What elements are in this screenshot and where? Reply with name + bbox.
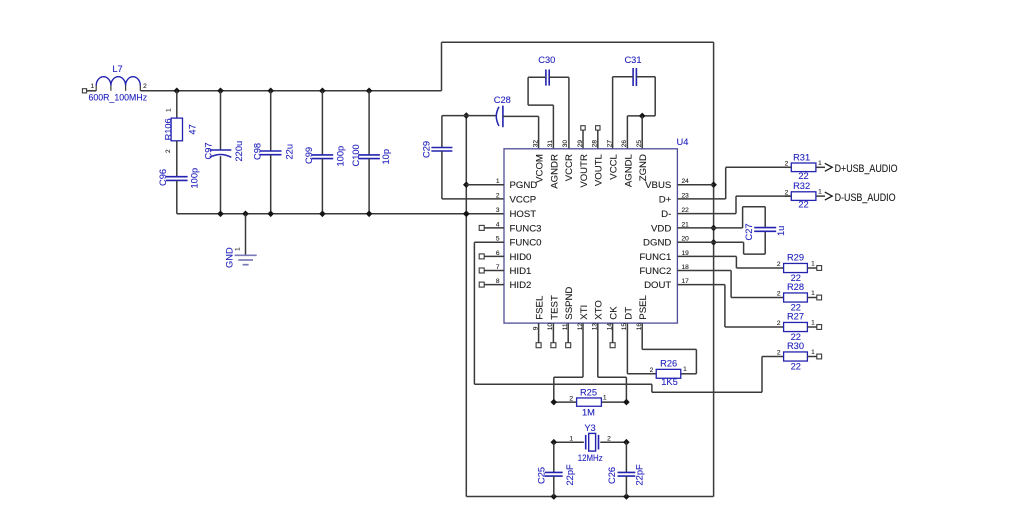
svg-text:FSEL: FSEL	[535, 295, 546, 320]
wire D+ route	[677, 198, 725, 200]
svg-text:1: 1	[569, 436, 573, 443]
svg-text:Y3: Y3	[584, 423, 595, 433]
svg-text:22: 22	[798, 171, 808, 181]
svg-text:C99: C99	[304, 147, 314, 164]
capacitor C31	[632, 68, 634, 86]
svg-text:U4: U4	[677, 137, 689, 147]
junction C100 bottom	[366, 211, 373, 218]
wire C26 column	[625, 442, 627, 472]
svg-text:1: 1	[603, 395, 607, 402]
svg-text:R28: R28	[787, 282, 804, 292]
svg-text:22: 22	[791, 362, 801, 372]
capacitor C100	[358, 154, 380, 156]
wire R29 pin1	[807, 267, 817, 269]
svg-text:FUNC0: FUNC0	[510, 238, 542, 249]
svg-text:1u: 1u	[776, 226, 786, 236]
capacitor C27	[754, 227, 776, 229]
svg-text:FUNC1: FUNC1	[639, 252, 671, 263]
wire ZGND stub	[641, 116, 643, 149]
svg-text:2: 2	[569, 395, 573, 402]
svg-text:C29: C29	[422, 141, 432, 158]
junction at R106 top	[174, 88, 181, 95]
wire C98 to ground rail	[270, 155, 272, 214]
wire PSEL route	[641, 323, 643, 349]
wire C100 to ground rail	[368, 159, 370, 214]
svg-text:C31: C31	[624, 55, 641, 65]
svg-text:DOUT: DOUT	[644, 280, 671, 291]
op-amp U4 body	[504, 149, 677, 323]
wire D- route	[677, 213, 736, 215]
svg-text:VCCR: VCCR	[564, 154, 575, 181]
svg-text:R25: R25	[580, 387, 597, 397]
svg-text:31: 31	[547, 140, 554, 148]
wire C28 to VCOM	[503, 115, 539, 117]
wire XTO route	[597, 323, 599, 377]
svg-text:XTO: XTO	[594, 300, 605, 320]
wire R28 pin1	[807, 297, 817, 299]
no-connect at HID0	[479, 254, 484, 259]
svg-text:30: 30	[562, 140, 569, 148]
svg-text:DGND: DGND	[643, 238, 671, 249]
svg-text:VOUTR: VOUTR	[579, 154, 590, 188]
svg-text:ZGND: ZGND	[638, 154, 649, 181]
svg-text:C27: C27	[744, 223, 754, 240]
svg-text:GND: GND	[225, 247, 235, 268]
svg-text:28: 28	[592, 140, 599, 148]
svg-text:1: 1	[90, 83, 94, 90]
no-connect at R28	[817, 295, 822, 300]
wire C29 to C28	[442, 115, 497, 117]
svg-text:HOST: HOST	[510, 209, 537, 220]
no-connect at VOUTL	[596, 126, 600, 130]
wire R31 to arrow	[816, 166, 825, 168]
svg-text:HID1: HID1	[510, 266, 532, 277]
wire VBUS pin	[677, 184, 713, 186]
wire FUNC1 route	[677, 255, 736, 257]
svg-text:VOUTL: VOUTL	[594, 153, 605, 186]
junction DGND pin	[710, 239, 717, 246]
wire R25 left	[554, 401, 577, 403]
resistor R25	[577, 398, 602, 406]
capacitor C29	[431, 147, 452, 149]
junction at C99 top	[319, 88, 326, 95]
wire VBUS top run	[442, 41, 714, 43]
svg-text:2: 2	[777, 261, 781, 268]
capacitor C30	[545, 70, 547, 86]
junction C26 at ground run	[623, 493, 630, 500]
svg-text:C26: C26	[607, 467, 617, 484]
wire C30 left to AGNDR	[528, 76, 546, 78]
svg-text:CK: CK	[609, 306, 620, 320]
svg-text:AGNDL: AGNDL	[623, 153, 634, 187]
svg-text:C25: C25	[536, 467, 546, 484]
junction C99 bottom	[319, 211, 326, 218]
junction PGND	[463, 181, 470, 188]
wire DOUT route	[677, 284, 725, 286]
svg-text:C100: C100	[351, 144, 361, 166]
svg-text:3: 3	[496, 207, 500, 214]
no-connect at VOUTR	[581, 126, 585, 130]
capacitor C28 (polarized)	[496, 107, 499, 126]
wire R27 pin1	[807, 326, 817, 328]
svg-text:TEST: TEST	[549, 295, 560, 320]
svg-text:FUNC3: FUNC3	[510, 223, 542, 234]
junction GND stem	[242, 211, 249, 218]
svg-text:1M: 1M	[582, 407, 595, 417]
svg-text:XTI: XTI	[579, 305, 590, 320]
svg-text:2: 2	[777, 291, 781, 298]
resistor R28	[784, 293, 808, 302]
svg-text:D+: D+	[659, 194, 672, 205]
svg-text:VDD: VDD	[651, 223, 671, 234]
wire DT route	[626, 323, 628, 374]
svg-text:R32: R32	[793, 181, 810, 191]
wire C31 left to VCCL	[613, 76, 634, 78]
wire FUNC2 route	[677, 270, 731, 272]
svg-text:C98: C98	[253, 143, 263, 160]
svg-text:47: 47	[187, 124, 197, 134]
wire C97 to ground rail	[220, 156, 222, 214]
svg-text:22pF: 22pF	[565, 464, 575, 486]
wire C25 column	[553, 442, 555, 472]
wire R30 pin1	[807, 356, 817, 358]
wire PGND	[466, 184, 504, 186]
resistor R32	[791, 192, 816, 201]
capacitor C25	[545, 471, 563, 473]
svg-text:D-: D-	[661, 209, 671, 220]
svg-text:2: 2	[785, 189, 789, 196]
wire Y3 right	[600, 441, 626, 443]
svg-text:1: 1	[811, 319, 815, 326]
capacitor C99	[312, 154, 334, 156]
no-connect at CK	[612, 323, 614, 343]
svg-text:12MHz: 12MHz	[578, 453, 603, 463]
svg-text:10p: 10p	[381, 149, 391, 165]
svg-text:C28: C28	[494, 95, 511, 105]
wire C30 right to VCCR	[549, 76, 569, 78]
wire R106 top lead	[176, 91, 178, 118]
svg-text:1: 1	[683, 366, 687, 373]
svg-text:1: 1	[811, 349, 815, 356]
svg-text:R31: R31	[793, 152, 810, 162]
svg-text:2: 2	[777, 350, 781, 357]
capacitor C97 (polarized)	[210, 149, 232, 151]
wire R25 right	[601, 401, 626, 403]
no-connect at FUNC3	[479, 225, 484, 230]
no-connect at HID1	[479, 268, 484, 273]
svg-text:100p: 100p	[189, 168, 199, 189]
wire FUNC0 route	[474, 241, 504, 243]
svg-text:PSEL: PSEL	[638, 295, 649, 320]
no-connect at R27	[817, 325, 822, 330]
wire L7 pin1 lead	[87, 90, 97, 92]
capacitor C98	[260, 150, 282, 152]
svg-text:HID2: HID2	[510, 280, 532, 291]
svg-text:29: 29	[577, 140, 584, 148]
capacitor C96	[166, 176, 188, 178]
svg-text:R27: R27	[787, 311, 804, 321]
junction at C98 top	[267, 88, 274, 95]
node D+USB_AUDIO arrow	[825, 163, 832, 171]
node D-USB_AUDIO arrow	[825, 192, 832, 200]
svg-text:2: 2	[785, 161, 789, 168]
wire C31 right to AGNDL and ZGND	[636, 76, 655, 78]
wire main VBUS rail	[140, 90, 441, 92]
svg-text:2: 2	[777, 320, 781, 327]
wire C100 top lead	[368, 91, 370, 155]
wire C96 to ground rail	[176, 180, 178, 213]
svg-text:220u: 220u	[234, 141, 244, 162]
crystal Y3	[585, 435, 587, 450]
junction HOST	[463, 211, 470, 218]
junction C25 at ground run	[551, 493, 558, 500]
junction Y3 pin1	[551, 439, 558, 446]
svg-text:VCOM: VCOM	[535, 154, 546, 183]
wire left ground vertical	[465, 116, 467, 497]
wire XTI route	[582, 323, 584, 377]
junction ZGND	[639, 113, 646, 120]
svg-text:2: 2	[165, 149, 172, 153]
resistor R106	[171, 118, 182, 141]
svg-text:2: 2	[496, 192, 500, 199]
junction Y3 pin2	[623, 439, 630, 446]
wire C29 top lead	[441, 116, 443, 148]
wire GND stem	[245, 214, 247, 255]
resistor R29	[784, 263, 808, 272]
svg-text:SSPND: SSPND	[564, 287, 575, 320]
no-connect terminal at L7 pin 1	[82, 89, 86, 93]
svg-text:R29: R29	[787, 252, 804, 262]
junction VDD pin	[710, 225, 717, 232]
wire C25 bottom	[553, 476, 555, 496]
svg-text:2: 2	[607, 436, 611, 443]
junction at C97 top	[217, 88, 224, 95]
svg-text:32: 32	[532, 140, 539, 148]
wire ground rail to HOST	[177, 213, 504, 215]
svg-text:D-USB_AUDIO: D-USB_AUDIO	[835, 192, 896, 204]
wire C26 bottom	[625, 476, 627, 496]
junction ground vertical at rail	[463, 211, 470, 218]
svg-text:1: 1	[235, 247, 242, 251]
resistor R26	[656, 369, 681, 378]
svg-text:22: 22	[798, 200, 808, 210]
wire C97 top lead	[220, 91, 222, 150]
junction C98 bottom	[267, 211, 274, 218]
svg-text:25: 25	[636, 140, 643, 148]
svg-text:FUNC2: FUNC2	[639, 266, 671, 277]
resistor R27	[784, 322, 808, 331]
junction C28 net top	[463, 112, 470, 119]
svg-text:L7: L7	[112, 64, 122, 74]
svg-text:DT: DT	[623, 307, 634, 320]
wire C98 top lead	[270, 91, 272, 151]
svg-text:26: 26	[621, 140, 628, 148]
wire VCCP	[442, 198, 504, 200]
svg-text:600R_100MHz: 600R_100MHz	[89, 93, 148, 103]
junction C97 bottom	[217, 211, 224, 218]
junction VBUS pin	[710, 181, 717, 188]
svg-text:C30: C30	[538, 55, 555, 65]
svg-text:R30: R30	[787, 341, 804, 351]
svg-text:1: 1	[166, 108, 173, 112]
wire Y3 left	[554, 441, 584, 443]
svg-text:1: 1	[818, 160, 822, 167]
no-connect at TEST	[552, 323, 554, 343]
svg-text:2: 2	[650, 367, 654, 374]
svg-text:PGND: PGND	[510, 180, 538, 191]
junction R25 pin1	[623, 399, 630, 406]
wire C29 bottom lead	[441, 151, 443, 199]
svg-text:1: 1	[818, 189, 822, 196]
svg-text:C96: C96	[158, 169, 168, 186]
wire R32 to arrow	[816, 195, 825, 197]
svg-text:R26: R26	[660, 359, 677, 369]
no-connect at R29	[817, 266, 822, 271]
wire VDD route	[677, 227, 742, 229]
wire C99 to ground rail	[321, 159, 323, 214]
svg-text:C97: C97	[204, 142, 214, 159]
wire DGND route	[677, 241, 743, 243]
junction R25 pin2	[551, 399, 558, 406]
wire bottom ground run	[466, 496, 713, 498]
svg-text:D+USB_AUDIO: D+USB_AUDIO	[835, 163, 898, 175]
inductor L7	[96, 77, 140, 86]
ground GND	[235, 254, 257, 256]
no-connect at HID2	[479, 282, 484, 287]
svg-text:22pF: 22pF	[635, 464, 645, 486]
svg-text:VCCL: VCCL	[609, 153, 620, 179]
svg-text:2: 2	[143, 83, 147, 90]
svg-text:27: 27	[606, 140, 613, 148]
no-connect at R30	[817, 354, 822, 359]
svg-text:22u: 22u	[284, 144, 294, 160]
capacitor C26	[618, 471, 636, 473]
wire VBUS riser (left)	[441, 42, 443, 91]
wire right vertical bus	[713, 42, 715, 496]
no-connect at SSPND	[567, 323, 569, 343]
no-connect at FSEL	[538, 323, 540, 343]
resistor R31	[791, 163, 816, 172]
wire R106 to C96	[176, 141, 178, 177]
svg-text:1K5: 1K5	[661, 377, 678, 387]
svg-text:R106: R106	[164, 118, 173, 140]
svg-text:1: 1	[811, 290, 815, 297]
svg-text:1: 1	[811, 260, 815, 267]
svg-text:HID0: HID0	[510, 252, 532, 263]
svg-text:VCCP: VCCP	[510, 194, 537, 205]
svg-text:100p: 100p	[336, 146, 346, 167]
svg-text:AGNDR: AGNDR	[549, 154, 560, 189]
resistor R30	[784, 352, 808, 361]
wire C99 top lead	[321, 91, 323, 155]
junction at C100 top	[366, 88, 373, 95]
